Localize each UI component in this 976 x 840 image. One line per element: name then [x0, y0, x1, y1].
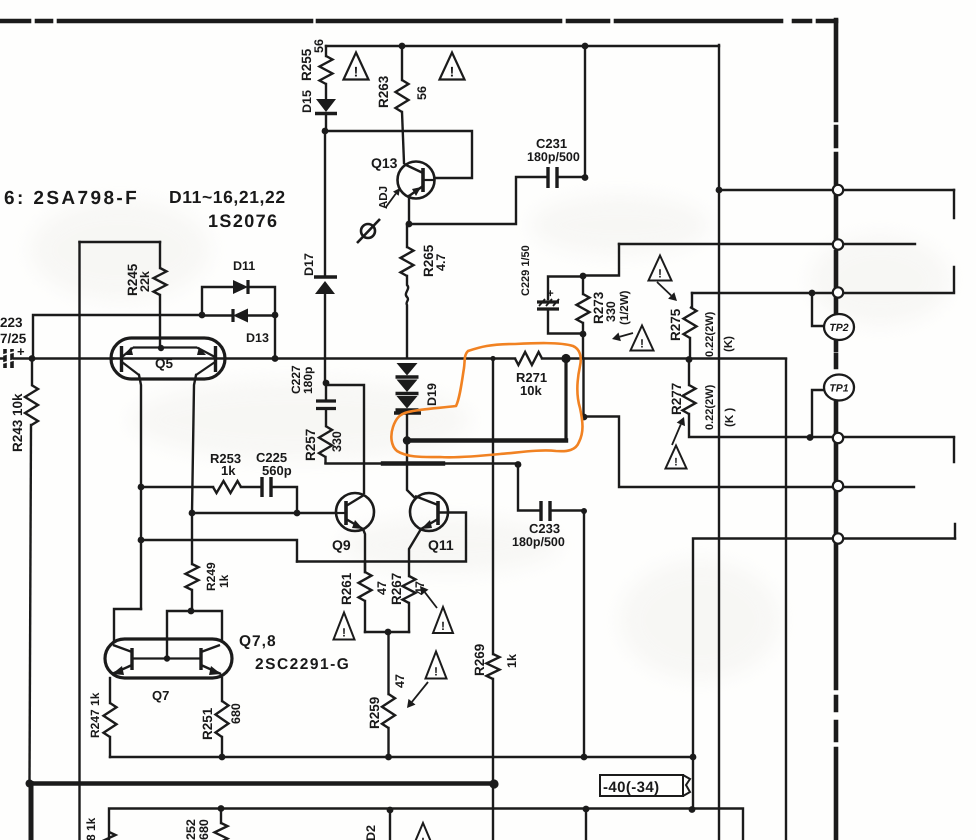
- node D15 cathode: [322, 128, 329, 135]
- wire R253-C225: [241, 486, 260, 488]
- resistor R261: [359, 572, 372, 601]
- wire wire2 corner: [583, 244, 619, 276]
- svg-text:R275: R275: [668, 308, 683, 341]
- wire Q7 base tee: [167, 611, 222, 658]
- wire R275 bottom lead: [689, 338, 691, 359]
- wire R251 top lead: [221, 678, 223, 701]
- node R275/R277 junction: [686, 356, 693, 363]
- wire main rail through Q5: [113, 357, 515, 359]
- node R273 bottom: [580, 331, 587, 338]
- svg-text:560p: 560p: [262, 463, 292, 478]
- wire y540: [141, 540, 297, 562]
- node y757/wire6 col: [690, 754, 697, 761]
- warning triangle T8 (R259): [426, 652, 447, 679]
- node R273 top: [580, 273, 587, 280]
- warning triangle T1: [344, 53, 369, 80]
- wire R255 top lead: [325, 46, 327, 56]
- svg-text:56: 56: [415, 86, 429, 100]
- node thick rail / R269: [489, 779, 498, 788]
- wire rail y757: [110, 756, 693, 758]
- node y808/R252: [218, 805, 225, 812]
- svg-text:47: 47: [375, 581, 389, 595]
- svg-text:D13: D13: [246, 331, 269, 345]
- svg-text:1k: 1k: [505, 654, 519, 668]
- wire wire3 y293: [692, 292, 954, 294]
- svg-text:D17: D17: [302, 253, 316, 276]
- wire R277 top lead: [688, 360, 690, 385]
- wire Q11 collector lead: [407, 441, 414, 497]
- wire bracket right upper: [953, 190, 955, 291]
- resistor R251: [216, 701, 229, 737]
- wire R259 top lead: [387, 632, 389, 694]
- arrow to R259: [412, 682, 428, 702]
- svg-text:!: !: [421, 835, 425, 840]
- node C231 right: [582, 174, 589, 181]
- node y463 / C233 branch: [515, 461, 522, 468]
- capacitor C233: [541, 501, 550, 521]
- connector circle wire3: [833, 287, 843, 297]
- connector circle wire6: [833, 533, 843, 543]
- svg-text:180p: 180p: [301, 367, 315, 394]
- wire x719 vertical: [718, 45, 720, 840]
- node y540: [138, 537, 145, 544]
- node thick rail left: [26, 780, 34, 788]
- arrow ADJ: [386, 194, 396, 207]
- svg-text:0.22(2W): 0.22(2W): [704, 384, 716, 430]
- svg-text:(K): (K): [723, 336, 735, 352]
- svg-text:R259: R259: [367, 697, 382, 729]
- arrow to R273 label: [620, 333, 633, 337]
- wire y463 thick overdraw: [383, 461, 443, 465]
- wire R245 top lead: [159, 242, 161, 268]
- warning triangle T9 (bottom partial): [412, 823, 434, 840]
- svg-text:22k: 22k: [138, 271, 152, 292]
- resistor R267: [403, 576, 416, 603]
- svg-text:4.7: 4.7: [434, 254, 448, 271]
- svg-text:!: !: [434, 665, 438, 679]
- warning triangle T6 (R261): [334, 613, 355, 640]
- resistor R247: [104, 703, 117, 737]
- wire R275 top lead: [690, 293, 692, 307]
- svg-text:Q9: Q9: [332, 537, 351, 553]
- warning triangle T4 (R273): [631, 326, 654, 351]
- wire R263 top lead: [401, 46, 403, 80]
- svg-text:R261: R261: [339, 572, 354, 605]
- wire C227-R257: [325, 410, 327, 426]
- svg-text:47: 47: [393, 674, 407, 688]
- resistor R245: [154, 268, 167, 295]
- wire y632 bar: [365, 631, 409, 633]
- svg-text:-40(-34): -40(-34): [603, 779, 660, 796]
- transistor Q5 (dual): [111, 338, 225, 379]
- svg-text:!: !: [441, 619, 445, 633]
- trimmer adjust symbol ADJ: [357, 219, 380, 243]
- svg-text:330: 330: [604, 301, 618, 322]
- connector circle wire5: [833, 481, 843, 491]
- wire TP2 elbow: [812, 293, 825, 326]
- wire Q5 left collector lead: [139, 375, 141, 609]
- wire R277 bottom corner: [689, 414, 954, 437]
- wire y487 R253 row: [141, 486, 213, 488]
- node D17 / C227: [323, 380, 330, 387]
- test point TP1: [824, 375, 854, 401]
- svg-text:TP1: TP1: [829, 383, 848, 395]
- node y757/R259: [385, 754, 392, 761]
- node y513: [189, 510, 196, 517]
- wire wire2 y244: [619, 243, 915, 245]
- wire R265 top lead: [406, 224, 408, 247]
- svg-text:1S2076: 1S2076: [208, 211, 278, 231]
- wire R245 top loop: [80, 241, 161, 243]
- svg-text:7/25: 7/25: [0, 331, 27, 346]
- svg-text:47: 47: [413, 581, 427, 595]
- wire D15 cathode to D17: [324, 131, 326, 275]
- svg-text:Q7: Q7: [152, 688, 169, 703]
- resistor R253: [213, 481, 241, 493]
- wire bracket right lower: [954, 438, 955, 539]
- svg-text:0.22(2W): 0.22(2W): [704, 311, 716, 357]
- wire wire5 y486: [584, 417, 914, 488]
- capacitor C225: [262, 477, 271, 497]
- capacitor C229 (electrolytic): [537, 302, 559, 309]
- svg-text:Q11: Q11: [428, 537, 454, 553]
- svg-text:R247 1k: R247 1k: [88, 692, 102, 738]
- svg-text:223: 223: [0, 315, 23, 330]
- diode D17: [314, 275, 337, 278]
- svg-text:R249: R249: [204, 562, 218, 591]
- svg-text:R251: R251: [200, 707, 215, 740]
- supply label -40(-34): [600, 775, 690, 796]
- svg-text:680: 680: [229, 703, 243, 724]
- diode D19a: [397, 363, 418, 376]
- wire R273 top lead: [582, 276, 584, 294]
- svg-text:Q13: Q13: [371, 155, 398, 171]
- wire R249 top lead: [191, 513, 193, 564]
- resistor R265: [401, 247, 414, 276]
- diode D19b: [397, 380, 418, 393]
- svg-text:330: 330: [330, 431, 344, 452]
- svg-text:C229 1/50: C229 1/50: [520, 245, 532, 296]
- wire R252 top lead: [220, 809, 222, 824]
- svg-text:!: !: [354, 64, 359, 80]
- wire C233 branch down: [518, 465, 539, 511]
- resistor R243: [25, 385, 38, 425]
- wire TP1 elbow: [812, 390, 825, 438]
- node wire4 / TP1 lead: [807, 434, 814, 441]
- diode D19c: [397, 396, 418, 409]
- resistor R259: [382, 694, 395, 728]
- wire R263-Q13 collector: [402, 112, 404, 163]
- svg-text:Q7,8: Q7,8: [239, 633, 277, 650]
- resistor R275: [684, 307, 697, 338]
- wire R259 bottom lead: [387, 728, 389, 757]
- diode D11: [233, 280, 248, 294]
- node D13 left: [199, 312, 206, 319]
- connector circle wire4: [833, 433, 843, 443]
- wire C231 right: [559, 176, 585, 178]
- svg-text:6: 2SA798-F: 6: 2SA798-F: [4, 188, 139, 209]
- svg-text:D11: D11: [233, 259, 255, 273]
- resistor R248: [103, 832, 116, 840]
- svg-text:!: !: [450, 64, 455, 80]
- svg-text:180p/500: 180p/500: [512, 535, 565, 549]
- chain border right vertical: [834, 20, 839, 840]
- arrow to R277: [672, 424, 681, 445]
- wire Q9 emitter lead: [363, 529, 365, 572]
- diode D15: [316, 99, 336, 112]
- transistor Q9: [336, 493, 374, 531]
- arrow to R275: [657, 282, 671, 296]
- wire R245-Q5 base: [159, 295, 161, 348]
- svg-text:R267: R267: [389, 573, 404, 605]
- wire C233 right: [552, 511, 584, 758]
- wire R255-D15: [325, 84, 327, 99]
- wire D15-junction: [325, 116, 327, 131]
- wire lower x586: [585, 809, 587, 840]
- wire x79 long vertical: [78, 242, 80, 840]
- wire R265 squiggle: [406, 276, 408, 358]
- svg-text:680: 680: [197, 819, 211, 840]
- wire y561 Q11 base return: [297, 513, 466, 562]
- svg-text:D11~16,21,22: D11~16,21,22: [169, 187, 286, 207]
- chain border top: [0, 19, 836, 24]
- wire Q13 emitter to C231: [409, 177, 546, 224]
- wire R251 bottom: [221, 737, 223, 757]
- svg-text:!: !: [674, 457, 678, 469]
- wire C227 top lead: [325, 383, 327, 399]
- node wire3 / TP2 lead: [809, 290, 816, 297]
- wire R249 bottom: [191, 590, 193, 611]
- svg-text:1k: 1k: [217, 574, 231, 588]
- resistor R269: [487, 654, 500, 679]
- node y757/R251: [219, 754, 226, 761]
- svg-text:D2: D2: [364, 825, 378, 840]
- svg-text:!: !: [658, 267, 662, 281]
- svg-text:180p/500: 180p/500: [527, 150, 580, 164]
- svg-text:ADJ: ADJ: [378, 186, 390, 209]
- test point TP2: [824, 314, 854, 340]
- svg-text:10k: 10k: [520, 383, 542, 398]
- connector circle wire1: [833, 185, 843, 195]
- node y808/x586: [583, 806, 590, 813]
- wire C229 top link: [548, 277, 583, 300]
- node main rail / R269 (small): [490, 356, 495, 361]
- wire C225 right corner: [273, 487, 297, 513]
- resistor R273: [577, 294, 590, 323]
- svg-text:Q5: Q5: [155, 356, 174, 371]
- wire R243 column top: [31, 359, 33, 386]
- connector circle wire2: [833, 239, 843, 249]
- wire D11 right: [249, 287, 275, 315]
- svg-text:2SC2291-G: 2SC2291-G: [255, 656, 350, 673]
- svg-text:C233: C233: [529, 521, 560, 536]
- wire thick rail y783: [29, 781, 494, 786]
- warning triangle T3 (R275): [649, 256, 672, 281]
- wire C229 bottom link: [548, 311, 583, 334]
- warning triangle T2: [440, 53, 465, 80]
- wire R261 bottom: [364, 601, 366, 632]
- resistor R277: [683, 385, 696, 414]
- annotation orange highlight around R271 net: [391, 343, 582, 457]
- svg-text:8 1k: 8 1k: [84, 817, 98, 840]
- svg-text:R243 10k: R243 10k: [10, 393, 25, 452]
- warning triangle T5 (R277): [666, 446, 687, 469]
- svg-text:252: 252: [184, 819, 198, 840]
- capacitor C223 (edge): [5, 349, 12, 368]
- wire wire1 y190: [719, 189, 954, 191]
- wire R269 bottom: [492, 679, 494, 840]
- wire y463 R257 to C233: [326, 462, 519, 464]
- wire D19 bottom lead: [406, 415, 408, 441]
- warning triangle T7 (R267): [433, 607, 453, 633]
- wire Q7 top-left lead: [114, 609, 141, 640]
- wire elbow to Q9 collector: [326, 385, 364, 493]
- wire R271 right vertical (thick): [564, 359, 567, 439]
- capacitor C231: [548, 167, 557, 188]
- wire main rail right of R271: [542, 357, 786, 359]
- svg-text:TP2: TP2: [829, 322, 848, 334]
- svg-text:+: +: [547, 288, 554, 300]
- wire Q13 emitter: [408, 196, 410, 224]
- node Q13 emitter: [406, 221, 413, 228]
- svg-text:(K ): (K ): [724, 408, 736, 427]
- node y808/x693: [689, 806, 696, 813]
- wire wire6 y538: [693, 539, 955, 811]
- svg-text:!: !: [342, 626, 346, 640]
- transistor Q11: [410, 493, 448, 531]
- node y632 / R259: [385, 629, 392, 636]
- wire lower x390: [389, 810, 391, 840]
- wire R247 bottom corner: [109, 737, 111, 757]
- resistor R263: [396, 80, 409, 112]
- resistor R252: [215, 823, 228, 840]
- wire main rail corner down x786: [785, 359, 787, 840]
- wire D13 row: [202, 314, 275, 316]
- svg-text:+: +: [17, 344, 25, 359]
- junction top rail / R263: [399, 43, 406, 50]
- node wire5 branch: [581, 414, 588, 421]
- wire R243 bottom long vertical: [30, 425, 32, 783]
- wire thick rail drop: [29, 784, 34, 840]
- wire Q5 right collector lead: [192, 375, 196, 513]
- wire R267 bottom: [408, 603, 410, 632]
- svg-text:56: 56: [312, 39, 326, 53]
- wire R247 top lead: [109, 678, 111, 703]
- diode D13: [231, 309, 234, 322]
- wire D17 anode down: [324, 294, 326, 383]
- node R249 bottom: [188, 608, 195, 615]
- node main rail / D13: [272, 355, 279, 362]
- wire y315 feedback: [33, 315, 202, 358]
- svg-text:1k: 1k: [221, 463, 236, 478]
- node y808/x390: [387, 807, 394, 814]
- svg-text:D19: D19: [425, 383, 439, 406]
- node wire1 / x719: [716, 187, 723, 194]
- svg-text:R263: R263: [376, 75, 391, 108]
- wire D-pair to main rail: [274, 315, 276, 358]
- resistor R249: [186, 564, 199, 590]
- svg-text:(1/2W): (1/2W): [619, 290, 631, 325]
- wire thick highlight bottom: [407, 438, 566, 442]
- node C223 / R243: [29, 355, 36, 362]
- node R271 right (big): [561, 354, 570, 363]
- resistor R271: [515, 352, 542, 365]
- wire Q11 emitter lead: [409, 529, 421, 576]
- node D13 right: [272, 312, 279, 319]
- arrow to R267: [425, 592, 437, 608]
- wire y131 to Q13 base loop: [325, 131, 472, 178]
- resistor R257: [319, 426, 332, 457]
- svg-text:R277: R277: [669, 383, 684, 415]
- svg-text:!: !: [640, 337, 644, 351]
- node y487: [138, 484, 145, 491]
- junction top rail / C231 branch: [582, 43, 589, 50]
- wire main rail left: [0, 357, 113, 359]
- node y757/C233 col: [581, 754, 588, 761]
- wire R257 bottom corner: [324, 457, 326, 463]
- wire R269 column: [492, 359, 494, 655]
- wire top rail y45: [326, 45, 719, 47]
- wire x585 C231 to top rail: [584, 46, 586, 177]
- svg-text:D15: D15: [300, 90, 314, 113]
- wire R261 top lead: [364, 562, 366, 573]
- svg-text:R257: R257: [303, 429, 318, 461]
- transistor Q13: [398, 162, 436, 199]
- node C233 right corner: [581, 508, 587, 514]
- node D19 / Q11 collector: [403, 436, 411, 444]
- node y513 / C225: [294, 510, 301, 517]
- wire y513 Q9 base: [192, 512, 336, 514]
- svg-text:C231: C231: [536, 136, 567, 151]
- svg-text:R269: R269: [472, 644, 487, 676]
- transistor Q7 (dual): [105, 639, 232, 678]
- wire D11 loop left: [202, 287, 233, 315]
- resistor R255: [320, 56, 333, 84]
- wire R273 bottom to main rail: [582, 323, 585, 417]
- wire lower rail y808: [109, 809, 743, 840]
